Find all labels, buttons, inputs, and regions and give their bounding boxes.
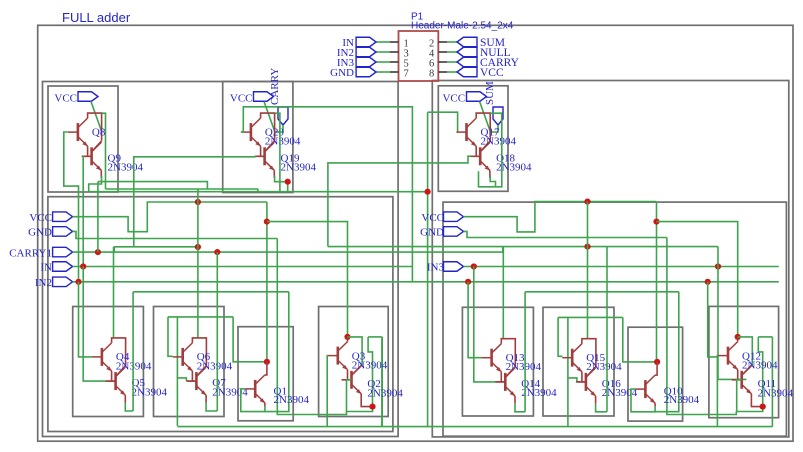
wire stub to pin 1 xyxy=(376,41,390,43)
right half wrapper box xyxy=(432,81,789,437)
collector lead Q16 xyxy=(586,366,596,377)
net flag IN3 xyxy=(444,262,464,272)
wire Q18 base feed xyxy=(328,156,471,246)
transistor Q7 xyxy=(186,367,206,395)
wire IN3 row xyxy=(464,266,779,268)
wire CARRY1 riser to Q8 region xyxy=(97,182,99,253)
emitter link Q6 to Q7 base xyxy=(191,371,193,381)
wire IN2 to Q4 base xyxy=(79,282,92,357)
wire VCC drop to Q1 collector xyxy=(266,202,268,362)
wire CARRY1 row xyxy=(73,251,503,253)
junction Q19 emitter xyxy=(285,179,291,185)
wire distribution row left xyxy=(133,291,289,293)
junction CARRY1 a xyxy=(95,249,101,255)
wire to Q1 collector xyxy=(233,317,267,362)
svg-text:8: 8 xyxy=(429,69,434,80)
wire emitter hook riser Q7 xyxy=(216,252,218,411)
transistor Q14 xyxy=(495,368,515,396)
wire VCC to Q15/Q16 collector xyxy=(587,202,589,339)
svg-text:2N3904: 2N3904 xyxy=(108,162,144,174)
collector lead Q9 xyxy=(92,141,102,152)
header net flag GND xyxy=(356,67,376,77)
svg-text:2N3904: 2N3904 xyxy=(481,136,517,148)
wire stub to pin 2 xyxy=(447,41,457,43)
wire Q19 base feed xyxy=(134,157,256,247)
svg-text:2N3904: 2N3904 xyxy=(197,360,233,372)
wire GND through Q1 box xyxy=(277,239,346,415)
svg-text:2N3904: 2N3904 xyxy=(132,386,168,398)
wire GND left xyxy=(73,231,278,238)
svg-text:2N3904: 2N3904 xyxy=(758,387,794,399)
wire VCC to Q20 collector xyxy=(264,102,275,132)
flag VCC block L xyxy=(78,92,98,102)
emitter link Q13 to Q14 base xyxy=(500,372,502,382)
junction IN2 right b xyxy=(705,279,711,285)
transistor Q17 xyxy=(457,118,477,146)
transistor Q19 xyxy=(255,142,275,170)
wire Q8 base to IN2 net xyxy=(64,132,79,282)
wire IN2 to Q12 base xyxy=(708,282,718,357)
wire stub to pin 3 xyxy=(376,51,390,53)
svg-text:2N3904: 2N3904 xyxy=(352,360,388,372)
wire hook around Q11 xyxy=(758,336,772,338)
base lead Q9 xyxy=(83,155,92,157)
header net flag IN3 xyxy=(356,57,376,67)
wire IN row xyxy=(73,266,413,268)
collector link Q13/Q14 xyxy=(501,339,515,367)
emitter wire Q7 xyxy=(206,403,217,411)
pin lead 7 xyxy=(390,71,399,73)
header net flag VCC xyxy=(457,67,477,77)
wire CARRY flag to collector xyxy=(275,125,283,132)
junction Q2 emitter xyxy=(369,404,375,410)
junction CARRY1 branch xyxy=(195,244,201,250)
wire hook around Q2 xyxy=(368,336,382,338)
transistor Q8 xyxy=(68,118,88,146)
svg-text:2N3904: 2N3904 xyxy=(664,394,700,406)
transistor Q1 xyxy=(245,375,265,403)
wire VCC branch to Q3 collector xyxy=(267,222,348,337)
transistor Q9 xyxy=(82,142,102,170)
left logic big box xyxy=(48,197,393,432)
junction CARRY1 b xyxy=(214,249,220,255)
junction IN to Q9 xyxy=(80,263,86,269)
sub box Q12/Q11 xyxy=(709,306,779,417)
net flag CARRY1 xyxy=(53,247,73,257)
pin lead 8 xyxy=(438,71,447,73)
net flag GND right xyxy=(444,227,464,237)
wire IN to Q5 base xyxy=(83,267,106,382)
wire Q9 base to IN net xyxy=(82,156,85,266)
block box Q8/Q9 xyxy=(48,86,118,192)
net flag IN2 xyxy=(53,277,73,287)
svg-text:IN3: IN3 xyxy=(427,262,445,274)
svg-text:VCC: VCC xyxy=(54,92,77,104)
wire Q2 emitter to base loop xyxy=(347,380,373,412)
sub box Q1 xyxy=(238,327,293,421)
wire IN2 to Q13 base xyxy=(468,282,482,358)
junction IN3 a xyxy=(471,263,477,269)
collector link Q8/Q9 xyxy=(88,113,102,141)
transistor Q18 xyxy=(470,142,490,170)
collector lead Q1 xyxy=(265,362,267,375)
wire feed row Q15/Q16 box xyxy=(558,316,623,318)
transistor Q20 xyxy=(241,118,261,146)
emitter lead Q11 L-shape xyxy=(751,394,762,407)
svg-text:CARRY1: CARRY1 xyxy=(9,247,52,259)
emitter lead Q2 L-shape xyxy=(361,394,372,407)
wire Q12 collector to Q11 collector xyxy=(738,337,753,365)
emitter lead Q1 xyxy=(264,403,266,407)
junction IN2 to Q8 xyxy=(75,279,81,285)
base lead Q7 xyxy=(187,380,196,382)
svg-text:GND: GND xyxy=(28,227,52,239)
base lead Q14 xyxy=(496,381,505,383)
wire CARRY1 riser xyxy=(502,247,504,253)
wire CARRY1 upper branch xyxy=(114,247,198,252)
base lead Q11 xyxy=(733,379,742,381)
collector link Q20/Q19 xyxy=(261,113,275,141)
wire Q3 box hook drop xyxy=(381,338,383,426)
wire stub to pin 5 xyxy=(376,61,390,63)
transistor Q4 xyxy=(92,343,112,371)
junction Q11 emitter xyxy=(760,404,766,410)
sub box Q15/Q16 xyxy=(543,307,614,416)
svg-text:2N3904: 2N3904 xyxy=(586,361,622,373)
collector link Q17/Q18 xyxy=(476,113,490,141)
wire VCC right staircase xyxy=(464,202,657,232)
flag CARRY xyxy=(278,107,288,125)
emitter link Q8 to Q9 base xyxy=(87,146,89,156)
block box Q17/Q18 xyxy=(438,86,508,192)
wire stub to pin 7 xyxy=(376,71,390,73)
emitter lead Q10 xyxy=(654,403,656,407)
wire Q1 emitter to base loop xyxy=(241,389,265,412)
svg-text:2N3904: 2N3904 xyxy=(274,394,310,406)
emitter lead Q12 to Q11 base xyxy=(737,370,739,380)
wire Q10 emitter to base loop xyxy=(631,389,655,412)
wire emitter hook riser Q16 xyxy=(606,247,608,412)
svg-text:VCC: VCC xyxy=(29,212,52,224)
pin lead 1 xyxy=(390,41,399,43)
wire VCC left staircase xyxy=(73,202,267,232)
header body P1 xyxy=(399,31,439,81)
wire VCC to Q8 collector xyxy=(91,102,102,132)
wire GND right xyxy=(464,231,667,237)
svg-text:2N3904: 2N3904 xyxy=(506,361,542,373)
svg-text:Q8: Q8 xyxy=(92,126,106,138)
sub box Q6/Q7 xyxy=(154,307,225,417)
wire Q3 collector to Q2 collector xyxy=(348,337,363,365)
wire emitter bus row 191 xyxy=(89,191,428,193)
wire Q20 collector down xyxy=(275,113,280,191)
svg-text:FULL adder: FULL adder xyxy=(62,10,131,25)
wire Q19 emitter down xyxy=(275,176,288,192)
svg-text:2N3904: 2N3904 xyxy=(742,360,778,372)
svg-text:2N3904: 2N3904 xyxy=(265,136,301,148)
wire into Q10 box hook xyxy=(655,292,679,412)
wire to Q6 base xyxy=(168,317,173,356)
wire Q20 base over and down xyxy=(241,107,413,282)
transistor Q3 xyxy=(328,342,348,370)
wire stub to pin 4 xyxy=(447,51,457,53)
emitter lead Q9 xyxy=(100,170,102,178)
emitter wire Q5 xyxy=(125,403,133,411)
emitter wire Q14 xyxy=(515,404,525,412)
wire to Q4/Q5 collector xyxy=(113,247,115,338)
wire through Q6/Q7 box xyxy=(176,317,178,426)
emitter lead Q7 xyxy=(205,395,207,403)
wire VCC to Q17 collector xyxy=(480,102,491,132)
svg-text:VCC: VCC xyxy=(230,92,253,104)
emitter lead Q14 xyxy=(514,396,516,404)
pin lead 5 xyxy=(390,61,399,63)
wire to Q13/Q14 collector xyxy=(502,247,504,339)
emitter lead Q3 to Q2 base xyxy=(347,370,349,380)
emitter lead Q16 xyxy=(595,396,597,404)
transistor Q2 xyxy=(342,366,362,394)
svg-text:GND: GND xyxy=(420,227,444,239)
header net flag SUM xyxy=(457,37,477,47)
svg-text:VCC: VCC xyxy=(421,212,444,224)
junction Q3 collector xyxy=(344,334,350,340)
pin lead 3 xyxy=(390,51,399,53)
collector lead Q11 xyxy=(742,365,752,375)
pin lead 6 xyxy=(438,61,447,63)
wire Q11 emitter to base loop xyxy=(737,380,763,412)
svg-text:Header-Male-2.54_2x4: Header-Male-2.54_2x4 xyxy=(411,21,514,32)
collector lead Q12 xyxy=(737,337,739,342)
sub box Q3/Q2 xyxy=(319,307,389,417)
block box Q20/Q19 xyxy=(223,82,293,193)
wire to Q15 base xyxy=(558,317,562,356)
transistor Q11 xyxy=(732,366,752,394)
flag VCC block R xyxy=(467,92,487,102)
wire Q18 emitter down xyxy=(490,176,495,187)
transistor Q12 xyxy=(718,342,738,370)
wire bottom bus xyxy=(177,426,772,428)
junction Q10 collector xyxy=(654,359,660,365)
svg-text:IN2: IN2 xyxy=(35,277,52,289)
transistor Q16 xyxy=(576,368,596,396)
base lead Q2 xyxy=(343,379,352,381)
emitter lead Q5 xyxy=(124,395,126,403)
wire VCC rail to Q6/Q7 collector xyxy=(197,189,199,338)
sub box Q10 xyxy=(628,327,683,421)
wire IN2 row xyxy=(73,281,779,283)
svg-text:2N3904: 2N3904 xyxy=(281,162,317,174)
collector lead Q3 xyxy=(347,337,349,342)
left half wrapper box xyxy=(43,82,399,437)
svg-text:2N3904: 2N3904 xyxy=(521,387,557,399)
net flag GND left xyxy=(53,227,73,237)
svg-text:VCC: VCC xyxy=(442,92,465,104)
header net flag CARRY xyxy=(457,57,477,67)
wire Q17 collector hook xyxy=(479,113,502,187)
wire stub to pin 8 xyxy=(447,71,457,73)
wire IN3 to Q14 base xyxy=(474,267,497,382)
wire emitter hook riser Q14 xyxy=(524,292,526,412)
wire to Q11 base xyxy=(718,247,746,380)
svg-text:CARRY: CARRY xyxy=(269,68,281,105)
wire to Q16 base xyxy=(568,378,577,382)
flag VCC block M xyxy=(254,92,274,102)
base lead Q16 xyxy=(577,381,586,383)
collector lead Q19 xyxy=(265,141,275,152)
base lead Q19 xyxy=(256,155,265,157)
collector lead Q10 xyxy=(655,362,657,375)
junction VCC branch right xyxy=(653,219,659,225)
wire through Q15/Q16 box xyxy=(567,317,569,426)
header net flag IN2 xyxy=(356,47,376,57)
emitter link Q20 to Q19 base xyxy=(260,146,262,156)
junction IN3 b xyxy=(715,263,721,269)
collector link Q4/Q5 xyxy=(112,338,126,366)
junction Q12 collector xyxy=(735,334,741,340)
wire stub to pin 6 xyxy=(447,61,457,63)
wire to Q10 collector xyxy=(623,317,657,362)
wire VCC branch to Q12 collector xyxy=(657,222,738,337)
junction Q1 collector xyxy=(264,359,270,365)
svg-text:GND: GND xyxy=(330,67,354,79)
wire to Q7 base xyxy=(177,378,186,381)
header net flag IN xyxy=(356,37,376,47)
collector lead Q7 xyxy=(196,366,206,377)
pin lead 4 xyxy=(438,51,447,53)
flag SUM xyxy=(493,107,503,125)
pin lead 2 xyxy=(438,41,447,43)
wire distribution row right xyxy=(525,291,679,293)
wire SUM flag to collector xyxy=(490,125,498,132)
net flag VCC right xyxy=(444,212,464,222)
collector lead Q2 xyxy=(352,365,362,375)
wire long vertical to bottom bus xyxy=(427,112,429,426)
wire GND through Q10 box xyxy=(667,238,736,415)
collector lead Q18 xyxy=(480,141,490,152)
svg-text:IN: IN xyxy=(40,262,52,274)
wire row 181 xyxy=(98,182,207,189)
svg-text:7: 7 xyxy=(404,69,409,80)
emitter link Q4 to Q5 base xyxy=(111,371,113,381)
wire Q12 base down xyxy=(716,356,719,427)
net flag IN xyxy=(53,262,73,272)
transistor Q13 xyxy=(482,344,502,372)
emitter wire Q16 xyxy=(596,404,607,412)
junction VCC branch xyxy=(264,219,270,225)
collector lead Q14 xyxy=(505,366,515,377)
transistor Q6 xyxy=(173,343,193,371)
wire feed row Q6/Q7 box xyxy=(168,316,233,318)
emitter link Q15 to Q16 base xyxy=(581,372,583,382)
collector link Q6/Q7 xyxy=(192,338,206,366)
sub box Q13/Q14 xyxy=(462,307,533,416)
transistor Q5 xyxy=(106,367,126,395)
header net flag NULL xyxy=(457,47,477,57)
svg-text:SUM: SUM xyxy=(484,81,496,105)
wire VCC rail row 189 xyxy=(106,189,258,192)
junction branch right xyxy=(584,244,590,250)
junction VCC rail right xyxy=(584,199,590,205)
wire emitter hook riser Q5 xyxy=(132,292,134,411)
wire VCC drop to Q10 collector xyxy=(656,202,658,362)
right logic big box xyxy=(443,202,786,436)
wire Q3 base down xyxy=(326,356,329,427)
junction emitter bus xyxy=(425,189,431,195)
junction VCC rail xyxy=(195,199,201,205)
wire Q9 emitter down xyxy=(89,176,102,192)
emitter lead Q18 xyxy=(489,170,491,178)
emitter link Q17 to Q18 base xyxy=(475,146,477,156)
net flag VCC left xyxy=(53,212,73,222)
wire Q17 base feed xyxy=(428,112,458,132)
wire into Q1 box hook xyxy=(265,292,289,412)
transistor Q15 xyxy=(562,344,582,372)
sub box Q4/Q5 xyxy=(73,307,144,417)
svg-text:VCC: VCC xyxy=(480,67,504,79)
collector link Q15/Q16 xyxy=(582,339,596,367)
transistor Q10 xyxy=(635,375,655,403)
base lead Q5 xyxy=(107,380,116,382)
svg-text:2N3904: 2N3904 xyxy=(367,387,403,399)
emitter lead Q19 xyxy=(273,170,275,178)
wire mid branch row xyxy=(328,246,718,248)
junction IN2 right a xyxy=(465,279,471,285)
base lead Q18 xyxy=(471,155,480,157)
collector lead Q5 xyxy=(116,366,126,377)
wire Q8 collector to VCC rail xyxy=(102,113,106,189)
